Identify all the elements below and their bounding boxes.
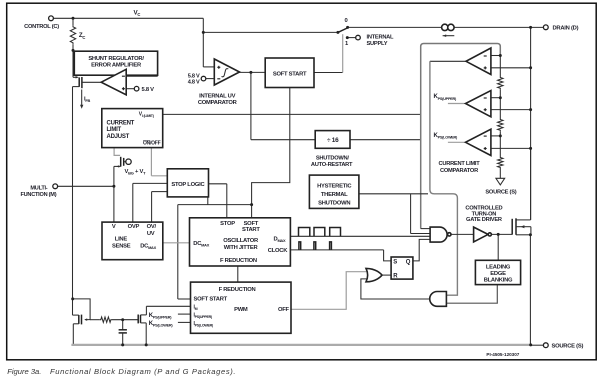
svg-text:DCMAX: DCMAX	[193, 241, 209, 248]
svg-text:SHUTDOWN/: SHUTDOWN/	[316, 155, 349, 161]
svg-text:4.8 V: 4.8 V	[188, 79, 200, 85]
svg-text:LIMIT: LIMIT	[107, 127, 122, 133]
svg-text:SHUNT REGULATOR/: SHUNT REGULATOR/	[88, 56, 144, 62]
svg-text:SOFT START: SOFT START	[194, 296, 228, 302]
svg-text:÷ 16: ÷ 16	[327, 137, 339, 144]
svg-text:CURRENT: CURRENT	[107, 120, 135, 126]
svg-text:0: 0	[345, 18, 348, 24]
svg-text:WITH JITTER: WITH JITTER	[224, 245, 259, 251]
svg-text:OFF: OFF	[278, 307, 290, 313]
svg-text:F REDUCTION: F REDUCTION	[220, 258, 257, 264]
svg-text:CONTROL (C): CONTROL (C)	[24, 24, 59, 30]
svg-text:F REDUCTION: F REDUCTION	[219, 287, 256, 293]
svg-text:AUTO-RESTART: AUTO-RESTART	[311, 162, 353, 168]
svg-text:GATE DRIVER: GATE DRIVER	[466, 217, 502, 223]
svg-text:DMAX: DMAX	[274, 237, 286, 244]
svg-text:ERROR AMPLIFIER: ERROR AMPLIFIER	[91, 62, 142, 68]
svg-text:SUPPLY: SUPPLY	[367, 41, 388, 47]
svg-text:SENSE: SENSE	[112, 244, 131, 250]
svg-text:PWM: PWM	[234, 307, 248, 313]
svg-text:ADJUST: ADJUST	[107, 134, 130, 140]
svg-text:BLANKING: BLANKING	[484, 277, 513, 283]
svg-text:VBG + VT: VBG + VT	[125, 169, 147, 176]
svg-text:ON/OFF: ON/OFF	[143, 140, 161, 146]
svg-text:Figure 3a.: Figure 3a.	[7, 367, 41, 376]
svg-text:COMPARATOR: COMPARATOR	[198, 100, 238, 106]
svg-text:OVP: OVP	[128, 224, 140, 230]
svg-text:V: V	[112, 224, 116, 230]
svg-text:STOP: STOP	[220, 221, 235, 227]
svg-text:PI-4505-120307: PI-4505-120307	[486, 352, 519, 357]
svg-text:OSCILLATOR: OSCILLATOR	[223, 238, 259, 244]
svg-text:CURRENT LIMIT: CURRENT LIMIT	[439, 161, 481, 167]
svg-text:LINE: LINE	[115, 236, 128, 242]
svg-text:OV/: OV/	[147, 224, 157, 230]
svg-text:CLOCK: CLOCK	[268, 248, 288, 254]
svg-text:SOURCE (S): SOURCE (S)	[552, 344, 584, 350]
svg-text:UV: UV	[147, 231, 155, 237]
svg-text:MULTI-: MULTI-	[30, 186, 47, 192]
svg-text:START: START	[242, 227, 260, 233]
svg-text:HYSTERETIC: HYSTERETIC	[317, 184, 352, 190]
svg-text:SOURCE (S): SOURCE (S)	[485, 190, 516, 196]
svg-text:DCMAX: DCMAX	[140, 244, 156, 251]
svg-text:DRAIN (D): DRAIN (D)	[553, 26, 579, 32]
svg-text:FUNCTION (M): FUNCTION (M)	[20, 192, 56, 198]
svg-text:5.8 V: 5.8 V	[142, 87, 155, 93]
svg-text:INTERNAL: INTERNAL	[367, 34, 395, 40]
svg-text:SHUTDOWN: SHUTDOWN	[318, 200, 350, 206]
svg-text:SOFT START: SOFT START	[273, 72, 307, 78]
svg-text:EDGE: EDGE	[490, 271, 506, 277]
svg-text:THERMAL: THERMAL	[321, 192, 348, 198]
svg-text:INTERNAL UV: INTERNAL UV	[199, 94, 235, 100]
svg-text:LEADING: LEADING	[486, 264, 511, 270]
svg-text:IFB: IFB	[84, 97, 91, 104]
svg-text:Q: Q	[406, 259, 411, 265]
svg-text:SOFT: SOFT	[244, 221, 259, 227]
svg-text:Functional Block Diagram (P an: Functional Block Diagram (P and G Packag…	[50, 367, 236, 376]
svg-text:S: S	[393, 259, 397, 265]
svg-text:COMPARATOR: COMPARATOR	[440, 168, 478, 174]
svg-text:STOP LOGIC: STOP LOGIC	[171, 182, 205, 188]
